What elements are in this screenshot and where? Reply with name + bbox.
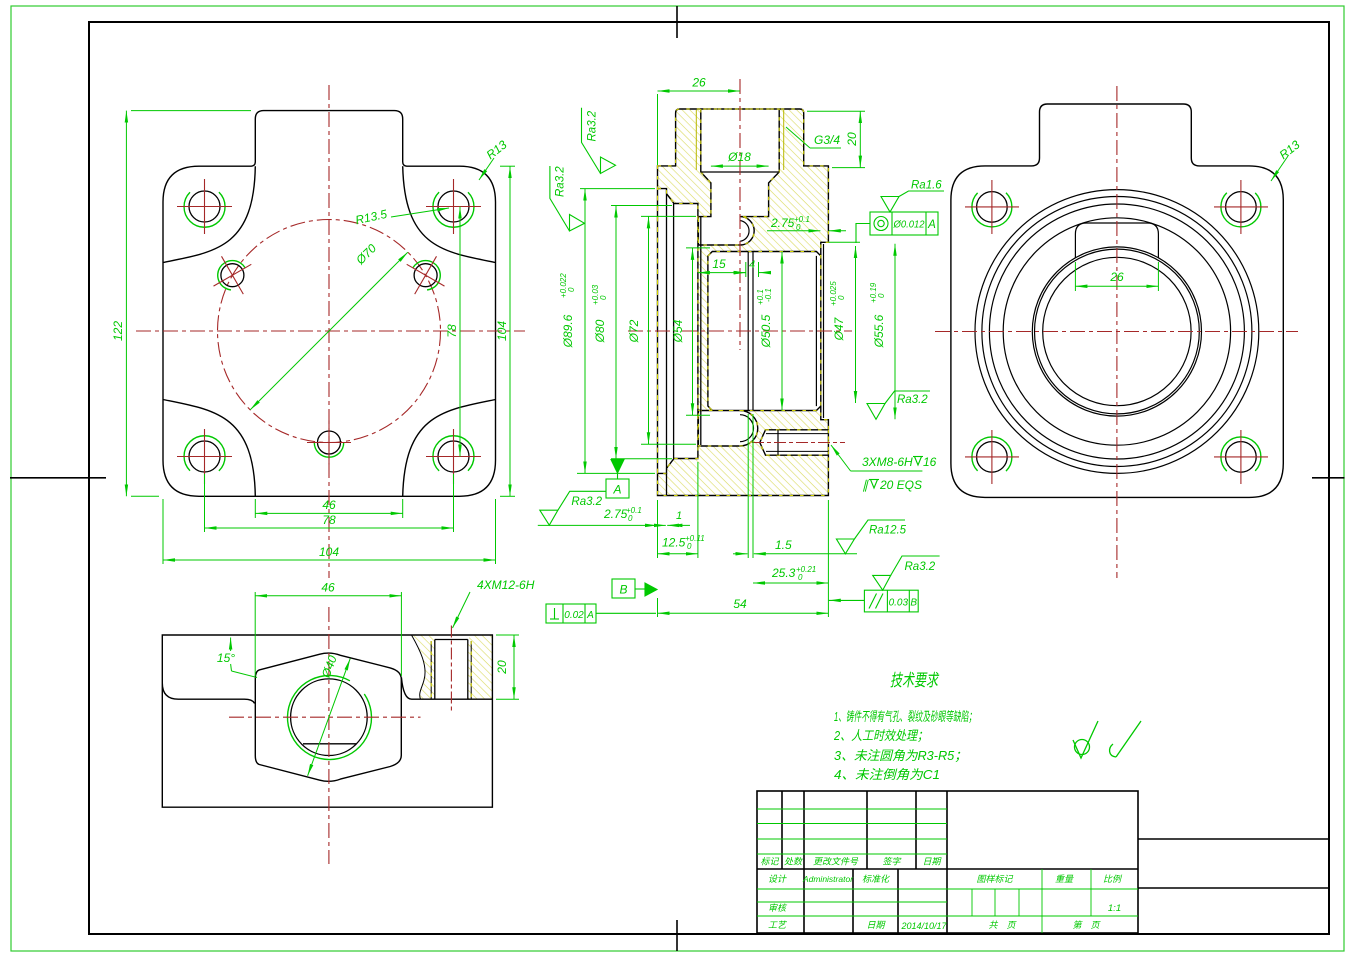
break line	[412, 635, 426, 699]
svg-text:重量: 重量	[1055, 874, 1074, 884]
svg-text:A: A	[586, 610, 594, 621]
concentricity frame	[856, 212, 938, 243]
cavity chamfer lines	[815, 256, 817, 406]
svg-text:日期: 日期	[866, 920, 886, 930]
label 3XM8	[831, 445, 922, 471]
svg-text:标记: 标记	[760, 857, 779, 867]
svg-text:2、人工时效处理；: 2、人工时效处理；	[833, 728, 928, 743]
dim 54	[658, 598, 829, 617]
svg-text:Ø54: Ø54	[671, 319, 685, 343]
dim dia55.6	[894, 244, 896, 419]
svg-text:0: 0	[567, 287, 576, 292]
svg-text:+0.022: +0.022	[559, 273, 568, 298]
svg-text:1、铸件不得有气孔、裂纹及砂眼等缺陷；: 1、铸件不得有气孔、裂纹及砂眼等缺陷；	[834, 709, 976, 724]
svg-text:日期: 日期	[922, 857, 942, 867]
dim 15deg	[231, 638, 257, 678]
svg-text:3XM8-6H: 3XM8-6H	[862, 455, 913, 469]
svg-text:104: 104	[495, 321, 509, 341]
svg-text:Ra3.2: Ra3.2	[555, 166, 567, 197]
right end chamfer	[823, 244, 825, 418]
thread circle green	[287, 676, 371, 760]
svg-text:+0.19: +0.19	[869, 282, 878, 303]
Ra3.2 right mid	[867, 391, 930, 419]
dim dia89.6	[577, 189, 655, 474]
svg-text:20: 20	[845, 132, 859, 147]
lug scallop bottom-left	[163, 400, 255, 497]
thread bottom line	[701, 171, 779, 173]
svg-text:4、未注倒角为C1: 4、未注倒角为C1	[834, 767, 940, 782]
svg-text:54: 54	[733, 597, 747, 611]
centering mark top	[676, 6, 678, 38]
svg-text:104: 104	[319, 545, 339, 559]
dim 104 bottom	[163, 499, 496, 564]
svg-text:0.03: 0.03	[889, 598, 909, 609]
svg-text:更改文件号: 更改文件号	[813, 857, 859, 867]
svg-text:20 EQS: 20 EQS	[879, 478, 922, 492]
dim 78 right	[459, 207, 461, 457]
centering mark bottom	[676, 920, 678, 951]
svg-text:1.5: 1.5	[775, 538, 792, 552]
svg-text:签字: 签字	[882, 857, 901, 867]
svg-text:Ra3.2: Ra3.2	[571, 496, 602, 508]
svg-text:-0.1: -0.1	[764, 288, 773, 302]
svg-text:Ra3.2: Ra3.2	[587, 110, 599, 141]
svg-text:处数: 处数	[784, 857, 803, 867]
svg-text:0.02: 0.02	[564, 610, 584, 621]
flange silhouette lines	[666, 194, 668, 468]
dim dia70 diagonal	[250, 252, 408, 410]
svg-text:78: 78	[445, 324, 459, 338]
finish symbol 1	[1073, 721, 1098, 758]
dim 12.5	[658, 462, 698, 558]
svg-text:A: A	[612, 483, 621, 497]
dim 4	[734, 262, 770, 277]
svg-text:0: 0	[687, 542, 692, 551]
M8 thread minor lines	[777, 430, 779, 455]
svg-text:Ra3.2: Ra3.2	[897, 394, 928, 406]
svg-text:B: B	[619, 583, 627, 597]
dim dia18	[711, 165, 769, 167]
svg-text:0: 0	[599, 295, 608, 300]
svg-text:16: 16	[923, 455, 937, 469]
dim 1.5	[733, 414, 857, 558]
svg-text:Ø50.5: Ø50.5	[759, 314, 773, 348]
Ra12.5	[836, 520, 905, 554]
svg-text:46: 46	[322, 498, 336, 512]
svg-text:设计: 设计	[768, 874, 787, 884]
dim 46 bottom	[255, 499, 402, 518]
svg-text:标准化: 标准化	[862, 874, 890, 884]
svg-text:A: A	[927, 219, 936, 231]
svg-text:26: 26	[691, 76, 706, 90]
svg-text:+0.025: +0.025	[829, 281, 838, 306]
dim 104 right	[500, 166, 515, 496]
svg-text:122: 122	[111, 321, 125, 341]
corner hole BL	[977, 442, 1008, 473]
svg-text:0: 0	[628, 514, 633, 523]
centerline horizontal	[136, 330, 525, 332]
svg-text:Ra12.5: Ra12.5	[869, 525, 907, 537]
centering mark right	[1312, 477, 1345, 479]
label G3/4	[786, 127, 841, 148]
svg-text:15°: 15°	[217, 651, 235, 665]
svg-text:2.75: 2.75	[603, 507, 628, 521]
red axis section horizontal	[628, 330, 852, 332]
parallelism frame	[829, 590, 918, 612]
port slot	[1075, 223, 1158, 258]
red axis section vertical	[739, 79, 741, 350]
svg-text:B: B	[910, 598, 917, 609]
dim 15	[698, 272, 746, 274]
boss outline	[255, 653, 401, 781]
svg-text:∥: ∥	[862, 478, 869, 492]
svg-text:4: 4	[749, 259, 755, 271]
svg-text:15: 15	[712, 257, 726, 271]
small hole 150deg	[221, 264, 244, 287]
svg-text:20: 20	[495, 660, 509, 675]
svg-text:3、未注圆角为R3-R5；: 3、未注圆角为R3-R5；	[834, 748, 967, 763]
thread hole section	[434, 640, 436, 700]
svg-text:第 页: 第 页	[1072, 920, 1101, 930]
corner hole BR	[438, 441, 469, 472]
svg-text:工艺: 工艺	[768, 920, 788, 930]
dim dia54	[686, 248, 710, 415]
perpendicularity frame	[546, 604, 656, 623]
lug scallop bottom-right	[403, 400, 496, 497]
svg-text:图样标记: 图样标记	[976, 874, 1013, 884]
svg-text:0: 0	[796, 223, 801, 232]
dim 20 bottom view	[496, 635, 519, 699]
svg-text:Ø80: Ø80	[593, 319, 607, 343]
svg-text:78: 78	[322, 513, 336, 527]
svg-text:1: 1	[676, 510, 682, 522]
dim 1	[655, 524, 681, 526]
svg-text:0: 0	[798, 573, 803, 582]
svg-text:技术要求: 技术要求	[890, 671, 939, 690]
hatched body section	[658, 109, 829, 496]
svg-text:比例: 比例	[1103, 874, 1123, 884]
thread major lines boss	[695, 110, 697, 170]
dim 26 slot	[1075, 262, 1158, 291]
corner hole TR	[438, 191, 469, 222]
hatch left of thread	[412, 635, 435, 699]
red centerlines bottom view	[229, 716, 421, 718]
hatch boundary yellow dashes	[658, 109, 829, 496]
svg-text:Ø0.012: Ø0.012	[893, 219, 925, 231]
small hole 30deg	[414, 264, 437, 287]
finish symbol 2	[1110, 721, 1141, 757]
Ra1.6 symbol	[881, 191, 944, 212]
Ra3.2 top left 2	[550, 166, 585, 231]
svg-text:2014/10/17: 2014/10/17	[900, 921, 947, 931]
lug scallop top-left	[163, 166, 255, 262]
dim 25.3	[753, 500, 828, 617]
dim dia72	[641, 216, 696, 444]
front view outline	[163, 111, 496, 497]
dim dia50.5	[781, 252, 783, 411]
dim dia47	[829, 242, 860, 403]
ledge under hatch	[421, 698, 493, 700]
body outline black	[658, 109, 829, 496]
svg-text:25.3: 25.3	[771, 566, 796, 580]
red axis M8	[752, 442, 845, 444]
dim 26 top	[658, 91, 741, 165]
corner hole BR	[1226, 442, 1257, 473]
svg-text:Ra3.2: Ra3.2	[905, 561, 936, 573]
bottom view outline	[162, 635, 492, 807]
Ra3.2 top left 1	[582, 108, 616, 174]
small hole 270deg	[318, 431, 341, 454]
svg-text:Ø18: Ø18	[727, 150, 751, 164]
corner hole BL	[189, 441, 220, 472]
centering mark left	[10, 477, 106, 479]
svg-text:12.5: 12.5	[662, 536, 686, 550]
bolt circle red	[218, 220, 441, 443]
red axis thread	[450, 626, 452, 714]
chord line	[303, 743, 356, 745]
centerlines right view	[935, 331, 1298, 333]
datum A	[606, 460, 629, 499]
datum B	[612, 579, 657, 598]
dim dia80	[611, 206, 672, 459]
svg-text:Ra1.6: Ra1.6	[911, 180, 942, 192]
dim dia40 diagonal	[308, 659, 351, 776]
corner hole TL	[189, 191, 220, 222]
label R13 right view	[1271, 156, 1288, 181]
dim 2.75 top	[767, 230, 846, 232]
groove ring lines	[747, 252, 749, 411]
svg-text:G3/4: G3/4	[814, 133, 840, 147]
dim 78 bottom	[205, 474, 454, 532]
svg-text:审核: 审核	[768, 903, 788, 913]
Ra3.2 bottom right	[873, 556, 940, 590]
centerline vertical	[328, 85, 330, 578]
svg-text:Administrator: Administrator	[802, 874, 854, 884]
svg-text:4XM12-6H: 4XM12-6H	[477, 578, 535, 592]
svg-text:+0.03: +0.03	[591, 284, 600, 305]
corner hole TR	[1226, 192, 1257, 223]
ledge right of boss	[401, 678, 420, 700]
svg-text:26: 26	[1109, 270, 1124, 284]
Ra3.2 left lower	[540, 491, 607, 525]
label R13.5	[391, 208, 449, 217]
svg-text:46: 46	[321, 581, 335, 595]
svg-text:0: 0	[837, 295, 846, 300]
svg-text:Ø89.6: Ø89.6	[561, 314, 575, 348]
right view outline	[951, 104, 1283, 497]
svg-text:2.75: 2.75	[770, 216, 795, 230]
dim 122	[126, 111, 251, 497]
lug scallop top-right	[403, 166, 496, 262]
svg-text:Ø72: Ø72	[627, 319, 641, 343]
svg-text:1:1: 1:1	[1108, 903, 1121, 914]
svg-text:Ø55.6: Ø55.6	[872, 314, 886, 348]
svg-text:共 页: 共 页	[988, 920, 1017, 930]
pocket inner arcs	[740, 221, 749, 242]
dim 20 boss	[807, 111, 865, 167]
concentric circles	[975, 190, 1259, 474]
corner hole TL	[977, 192, 1008, 223]
dim 46 bottom view	[255, 592, 401, 676]
bore circle dia40	[291, 679, 368, 756]
label R13	[479, 158, 494, 180]
svg-text:Ø47: Ø47	[832, 316, 846, 341]
svg-text:0: 0	[877, 293, 886, 298]
